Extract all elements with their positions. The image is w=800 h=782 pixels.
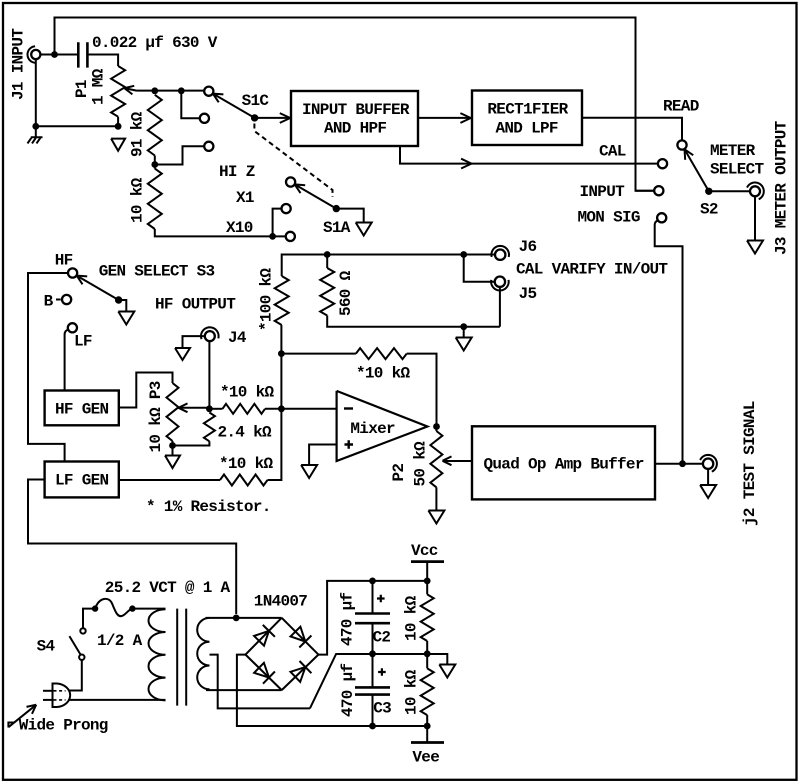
svg-text:SELECT: SELECT [710, 161, 765, 179]
wire bridge plus up to Vcc rail [318, 581, 427, 655]
svg-text:P1: P1 [73, 80, 91, 98]
svg-text:1/2 A: 1/2 A [97, 632, 143, 650]
junction fuse right [129, 605, 135, 611]
resistor *10 kohm feedback [356, 348, 407, 359]
arrow S3 blade [77, 276, 83, 285]
arrow P1 wiper [125, 88, 133, 94]
potentiometer P3 body [167, 383, 179, 441]
junction fuse left [92, 605, 98, 611]
connector J2 shell arc [700, 455, 717, 472]
svg-text:25.2 VCT @ 1 A: 25.2 VCT @ 1 A [105, 579, 231, 597]
svg-text:CAL: CAL [599, 143, 626, 161]
wire 10k upper leads [426, 581, 428, 654]
wire S1C to input buffer [255, 117, 290, 119]
ground at P3 bottom [165, 456, 180, 469]
connector J6 cal jack [495, 250, 505, 260]
chassis ground under J1 [28, 127, 43, 143]
svg-text:C3: C3 [373, 700, 391, 718]
switch S1C blade [213, 94, 255, 118]
plug prong top hidden [54, 690, 66, 692]
bridge edge bottom-right [282, 655, 319, 691]
switch S1C contact mid [200, 114, 209, 123]
svg-text:LF GEN: LF GEN [55, 472, 109, 490]
svg-text:Vee: Vee [412, 749, 439, 767]
power rail bar Vee [411, 741, 444, 744]
svg-text:GEN SELECT S3: GEN SELECT S3 [99, 263, 215, 281]
junction inverting node [278, 405, 285, 412]
svg-text:10 kΩ: 10 kΩ [403, 669, 421, 715]
switch S1A contact X10 [286, 232, 295, 241]
wire HF contact to left rail down to LF GEN [28, 273, 68, 461]
svg-text:J6: J6 [519, 238, 537, 256]
resistor 91 kohm [148, 95, 162, 156]
svg-text:CAL VARIFY IN/OUT: CAL VARIFY IN/OUT [516, 261, 668, 279]
svg-text:J5: J5 [519, 285, 537, 303]
switch S3 contact LF [68, 323, 77, 332]
ground at J3 [747, 241, 763, 254]
svg-text:91 kΩ: 91 kΩ [129, 111, 147, 157]
ground under P1 bottom [111, 139, 125, 151]
connector J4 shell arc [201, 327, 219, 339]
wire buffer to rectifier [418, 117, 470, 119]
arrow P2 wiper [443, 461, 452, 465]
wire 91k bottom junction [155, 146, 204, 168]
power rail bar Vcc [411, 560, 444, 563]
connector J1 shell arc [28, 46, 36, 63]
svg-text:MON SIG: MON SIG [578, 209, 640, 227]
arrow wide prong pointer [8, 705, 35, 727]
junction Vee rail C3 [369, 723, 376, 730]
wire Vee stem [426, 726, 428, 743]
arrow into rectifier [460, 113, 470, 118]
wire S4 to plug [68, 660, 82, 691]
svg-text:470 µf: 470 µf [339, 663, 357, 717]
svg-text:AND LPF: AND LPF [496, 120, 558, 138]
junction 91k-10k [151, 161, 158, 168]
block LF GEN [45, 462, 119, 498]
wire P1 wiper [125, 88, 205, 90]
wire HF GEN to P3 top [119, 373, 173, 408]
wire 10k b to inverting node vertical [268, 409, 282, 480]
wire 10k bottom to X10 contact [155, 229, 285, 236]
diode D1 1N4007 (left to top) [254, 631, 269, 646]
svg-text:470 µf: 470 µf [339, 592, 357, 646]
dash at B contact [56, 299, 61, 301]
svg-text:INPUT BUFFER: INPUT BUFFER [302, 101, 410, 119]
ground at mixer input [301, 465, 317, 478]
svg-text:HF: HF [55, 252, 73, 270]
arrow on CAL line [461, 159, 471, 164]
svg-text:C2: C2 [373, 629, 391, 647]
junction wiper to 91k [151, 87, 158, 94]
arrow P3 wiper [179, 408, 188, 412]
svg-text:* 1% Resistor.: * 1% Resistor. [146, 498, 271, 516]
wire C1 to P1 top [87, 55, 118, 67]
wire LF GEN output to 10k b [119, 479, 220, 481]
wire S1A common to ground [336, 209, 363, 222]
svg-text:S1C: S1C [242, 92, 270, 110]
svg-text:Mixer: Mixer [350, 420, 395, 438]
wire bridge minus to Vee rail [237, 655, 427, 726]
block rectifier and LPF [472, 91, 582, 146]
svg-text:J1 INPUT: J1 INPUT [10, 28, 28, 100]
bridge edge bottom-left [246, 655, 282, 691]
junction rail to J5 elbow [460, 251, 467, 258]
switch S1C contact wiper [204, 87, 213, 96]
wire P3 wiper [178, 407, 210, 409]
svg-text:560 Ω: 560 Ω [337, 270, 355, 316]
wire S1C mid contact elbow [181, 91, 200, 119]
switch S3 contact HF [68, 268, 77, 277]
plug prong bottom [43, 699, 53, 701]
junction wiper to S1C mid contact [178, 87, 185, 94]
resistor 560 ohm [320, 268, 334, 316]
svg-text:0.022 µf 630 V: 0.022 µf 630 V [92, 34, 218, 52]
resistor *100 kohm [275, 276, 289, 325]
arrow S1C blade [213, 94, 219, 103]
connector J5 cal jack [495, 277, 505, 287]
capacitor C2 plates [355, 614, 390, 624]
wire feedback left [281, 353, 356, 355]
bridge edge top-left [246, 618, 282, 655]
connector J1 (input jack) [31, 50, 40, 59]
switch S3 common pole [115, 296, 122, 303]
svg-text:INPUT: INPUT [580, 183, 626, 201]
junction mixer output [433, 423, 440, 430]
junction at J1 ground [32, 123, 39, 130]
wire J4 to ground left [183, 336, 205, 347]
arrow into input buffer [280, 113, 290, 118]
minus sign inverting input [344, 407, 353, 409]
wire plug to transformer primary [68, 699, 165, 701]
wire INPUT contact [636, 190, 654, 192]
connector J5 shell arc [491, 280, 509, 291]
ground at mid rail [439, 665, 455, 678]
resistor 2.4 kohm [204, 413, 215, 442]
wire J3 to ground [754, 196, 756, 239]
connector J6 shell arc [491, 246, 509, 257]
wire resistor a to inverting node [265, 408, 337, 410]
ground at S3 [118, 312, 134, 325]
wire fuse to primary top [132, 608, 165, 610]
svg-text:1N4007: 1N4007 [254, 593, 308, 611]
wire P2 bottom to ground [435, 487, 437, 509]
wire rectifier to READ contact [582, 118, 682, 141]
junction J2 node [679, 460, 686, 467]
switch S2 common pole [705, 188, 712, 195]
wire J2 ground stem [707, 469, 709, 484]
switch S4 blade [69, 636, 80, 655]
plug prong top [43, 690, 53, 692]
svg-text:2.4 kΩ: 2.4 kΩ [218, 424, 273, 442]
switch S1C common pole [251, 114, 258, 121]
svg-text:10 kΩ: 10 kΩ [129, 177, 147, 223]
svg-text:*100 kΩ: *100 kΩ [258, 268, 276, 331]
plus sign C3 [378, 668, 386, 676]
switch S4 contact top [80, 628, 85, 633]
wire secondary center tap [210, 655, 310, 709]
transformer T1 secondary winding [197, 618, 209, 689]
wire LF contact to HF GEN [65, 330, 69, 390]
svg-text:50 kΩ: 50 kΩ [412, 441, 430, 487]
junction secondary top [233, 615, 240, 622]
potentiometer P1 body [111, 66, 125, 117]
svg-text:*10 kΩ: *10 kΩ [356, 365, 411, 383]
connector J2 test signal jack [703, 459, 713, 469]
junction mid rail C2 [369, 650, 376, 657]
switch S2 contact READ [677, 140, 686, 149]
wire inverting node up to 100k [280, 325, 282, 409]
wire 10k lower leads [426, 654, 428, 726]
ground at J2 [700, 485, 716, 498]
connector J4 HF output jack [205, 331, 215, 341]
switch S1C contact low [204, 142, 213, 151]
junction at P1 bottom [115, 123, 122, 130]
capacitor C1 0.022uf [78, 42, 87, 67]
svg-text:J4: J4 [228, 329, 247, 347]
potentiometer P2 body [430, 431, 442, 487]
switch S2 contact CAL [658, 159, 667, 168]
svg-text:RECT1FIER: RECT1FIER [487, 101, 568, 119]
resistor 10 kohm b (LF GEN) [220, 475, 268, 486]
switch S1A common pole [333, 205, 340, 212]
wire 560 bottom to J5 bottom rail [327, 316, 500, 327]
arrow S2 blade [684, 149, 687, 160]
svg-text:HF OUTPUT: HF OUTPUT [155, 296, 236, 314]
junction Vee rail 10k [424, 723, 431, 730]
wire S3 common to ground [119, 300, 127, 311]
connector J3 shell arc [747, 183, 764, 200]
connector J3 meter output [750, 186, 760, 196]
svg-text:1 MΩ: 1 MΩ [90, 68, 108, 105]
arrow S1A blade [295, 184, 301, 193]
junction feedback tap [278, 350, 285, 357]
svg-text:S1A: S1A [323, 219, 351, 237]
junction P3 wiper J4 and 10k a [206, 405, 213, 412]
wire quad buffer output to J2 [655, 463, 703, 465]
switch S4 contact bottom [79, 655, 84, 660]
diode D3 1N4007 (left to bottom) [254, 663, 269, 678]
ground at J4 [175, 348, 190, 360]
switch S1A blade [295, 184, 337, 208]
dashed gang coupling S1C-S1A [254, 124, 332, 198]
transformer T1 core [177, 609, 186, 706]
svg-text:10 kΩ P3: 10 kΩ P3 [147, 381, 165, 452]
junction P3 bottom [169, 442, 176, 449]
wire J1 to C1 with top branch [41, 18, 655, 191]
wire LF GEN left to power transformer node [28, 480, 236, 615]
wire MON SIG down to J2 node [655, 221, 683, 462]
ground at cal rail [456, 338, 472, 351]
wire feedback right down to output [407, 354, 437, 427]
wire 560 top lead [326, 255, 328, 269]
wire 2.4k bottom to P3 bottom [173, 441, 210, 455]
svg-text:P2: P2 [390, 464, 408, 482]
switch S3 blade [77, 276, 119, 300]
plus sign non-inverting input [345, 440, 354, 448]
resistor 10 kohm divider [148, 169, 162, 229]
resistor 10 kohm lower bleeder [421, 668, 434, 715]
wire buffer second output to CAL [400, 146, 658, 164]
transformer T1 primary winding [149, 609, 166, 700]
wire P1 bottom to ground rail [36, 59, 118, 126]
svg-text:X10: X10 [226, 219, 253, 237]
wire 100k top rail to J6 [282, 255, 495, 277]
junction X1-X10 tie [269, 233, 276, 240]
svg-text:Quad Op Amp Buffer: Quad Op Amp Buffer [484, 456, 644, 474]
bridge edge top-right [282, 618, 319, 655]
ground at S1A [356, 223, 372, 236]
wire J5 down [499, 287, 501, 327]
capacitor C3 plates [355, 687, 390, 694]
svg-text:S2: S2 [700, 201, 718, 219]
switch S1A contact X1 [282, 204, 291, 213]
svg-text:HF GEN: HF GEN [55, 401, 109, 419]
resistor 10 kohm upper bleeder [421, 594, 434, 641]
svg-text:AND HPF: AND HPF [324, 120, 386, 138]
fuse F1 1/2 A [95, 599, 132, 616]
svg-text:Vcc: Vcc [411, 542, 438, 560]
plus sign C2 [377, 595, 385, 603]
power plug body [53, 684, 71, 708]
diode D2 1N4007 (top to right) [291, 627, 306, 642]
junction mid rail 10k [424, 650, 431, 657]
block quad op amp buffer [472, 426, 655, 499]
plug prong bottom hidden [54, 699, 66, 701]
svg-text:J3 METER OUTPUT: J3 METER OUTPUT [773, 120, 791, 255]
wire wiper node to resistor a [209, 408, 222, 410]
wire P2 top [435, 427, 437, 432]
wire P2 wiper from quad buffer [444, 460, 473, 462]
diode D4 1N4007 (bottom to right) [291, 667, 306, 682]
svg-text:*10 kΩ: *10 kΩ [219, 455, 274, 473]
resistor 10 kohm a (P3 to mixer) [223, 404, 266, 414]
svg-text:X1: X1 [236, 189, 254, 207]
junction bottom rail ground [460, 323, 467, 330]
wire secondary top to bridge [206, 617, 282, 619]
capacitor C2 bottom lead [372, 623, 374, 654]
svg-text:METER: METER [710, 142, 756, 160]
svg-text:Wide Prong: Wide Prong [19, 717, 108, 735]
capacitor C2 top lead [372, 581, 374, 614]
svg-text:10 kΩ: 10 kΩ [403, 595, 421, 641]
switch S2 contact INPUT [654, 186, 663, 195]
svg-text:HI Z: HI Z [219, 163, 255, 181]
junction at J1 output [51, 51, 58, 58]
op-amp mixer triangle [337, 391, 428, 461]
switch S3 contact B [62, 295, 71, 304]
junction rail to 560 [324, 251, 331, 258]
svg-text:*10 kΩ: *10 kΩ [220, 384, 275, 402]
block HF GEN [45, 391, 119, 426]
svg-text:LF: LF [74, 333, 92, 351]
switch S2 blade [685, 149, 709, 191]
wire S2 to J3 [709, 190, 750, 192]
wire J4 down to wiper node [208, 341, 210, 409]
capacitor C3 bottom lead [372, 695, 374, 726]
ground at P2 [428, 511, 444, 524]
wire center tap diagonal to mid rail [310, 654, 447, 708]
switch S2 contact MON SIG [657, 213, 666, 222]
wire fuse to switch S4 [83, 609, 95, 628]
svg-text:S4: S4 [37, 638, 56, 656]
switch S1A contact HI Z [286, 177, 295, 186]
junction Vcc rail 10k [424, 578, 431, 585]
wire ground stem cal rail [463, 327, 465, 337]
wire J6 elbow to J5 [464, 255, 495, 282]
wire non-inverting input to ground [309, 445, 337, 465]
svg-text:j2 TEST SIGNAL: j2 TEST SIGNAL [741, 401, 759, 526]
wire Vcc stem [426, 562, 428, 581]
capacitor C3 top lead [372, 654, 374, 688]
svg-text:B: B [44, 293, 54, 311]
junction Vcc rail C2 [369, 578, 376, 585]
wire X1 contact tie [273, 209, 281, 237]
wire secondary bottom to bridge [206, 689, 282, 691]
block input buffer and HPF [291, 91, 418, 146]
svg-text:READ: READ [663, 98, 699, 116]
